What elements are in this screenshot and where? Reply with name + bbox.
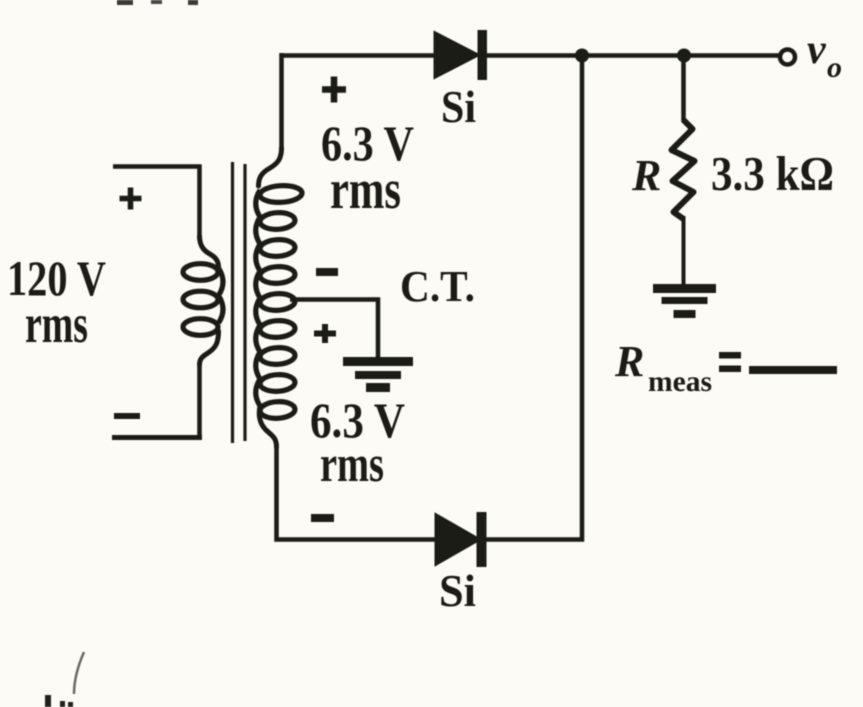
label - primary [114,413,140,419]
svg-text:Si: Si [441,81,476,132]
wire primary bottom [112,435,202,440]
svg-text:meas: meas [648,365,712,398]
wire primary top riser [197,165,202,239]
wire top rail left [280,53,438,58]
label + secondary top [322,86,346,93]
inductor primary winding [200,236,219,267]
svg-text:R: R [614,337,644,386]
ground center tap [343,357,413,366]
label - secondary bottom [311,514,334,522]
svg-text:rms: rms [320,436,384,493]
svg-text:C.T.: C.T. [400,262,475,311]
svg-text:R: R [631,151,661,200]
svg-text:rms: rms [25,293,88,354]
wire node B to resistor [681,56,686,123]
wire node A down [580,56,585,542]
svg-text:rms: rms [330,159,401,221]
junction node B [677,49,691,63]
transformer core lines [231,162,234,443]
wire center tap horizontal [290,297,380,302]
resistor R zigzag [672,120,695,219]
output terminal vo [780,50,795,65]
wire center tap vertical [376,298,381,359]
scan artifact dashes top edge [117,0,133,5]
svg-text:3.3 kΩ: 3.3 kΩ [711,146,834,201]
svg-text:o: o [827,51,842,84]
wire resistor to ground [682,216,686,289]
label - secondary above center tap [316,268,338,276]
diode D2 (Si) bottom [436,514,481,565]
scan artifact bottom left [74,652,84,694]
inductor secondary winding (center-tapped) [259,148,282,186]
label + primary [120,196,142,202]
wire bottom rail left [275,537,439,542]
junction node A [575,49,589,63]
wire bottom rail right [485,537,584,542]
wire top rail right [485,53,780,58]
ground load [653,284,716,293]
svg-text:Si: Si [439,565,476,616]
wire secondary top riser [279,53,284,150]
wire primary bottom riser [197,363,202,440]
wire primary top [113,164,201,169]
diode D1 (Si) top [435,32,480,78]
label + secondary below center tap [314,331,336,337]
wire secondary bottom riser [274,445,279,542]
svg-text:v: v [807,27,827,73]
